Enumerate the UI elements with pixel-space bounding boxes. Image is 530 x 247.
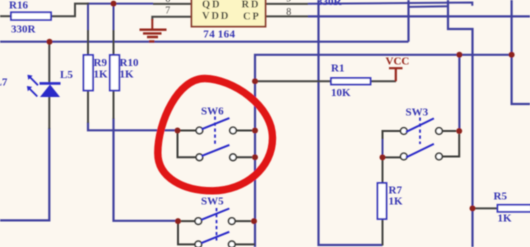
svg-text:74 164: 74 164 [203,29,235,41]
wire vertical x318.5 [319,0,383,245]
wire pin6 gray stub [153,3,192,5]
node SW5 left [175,218,181,224]
svg-text:CP: CP [243,11,261,22]
svg-text:VCC: VCC [386,56,410,68]
node pin6 / R10 [111,1,117,7]
svg-text:R5: R5 [494,191,508,203]
node R5 tap [470,205,476,211]
node SW3 left bottom [380,154,386,160]
wire SW3 left link [383,131,401,140]
svg-text:VDD: VDD [202,11,230,22]
svg-text:330R: 330R [11,24,37,36]
svg-text:330R: 330R [317,0,343,8]
wire R9 to SW6 [88,122,178,130]
node SW6 left [175,128,181,134]
wire pin8 gray stub [266,15,309,17]
node SW6 right top [252,128,258,134]
wire pin7 gray stub [152,17,191,20]
node R1 left [252,78,258,84]
wire LED to left edge [0,128,49,220]
svg-text:1K: 1K [498,212,513,224]
svg-text:9: 9 [286,0,291,5]
svg-text:SW5: SW5 [201,196,224,208]
svg-text:L5: L5 [60,69,73,81]
svg-text:QD: QD [202,0,221,11]
wire R5 pin [473,207,498,209]
wire vertical x408.5 top right [407,0,409,42]
resistor R16 [11,12,51,20]
svg-text:SW6: SW6 [201,106,224,118]
svg-text:RD: RD [242,0,261,10]
svg-text:10K: 10K [331,87,351,99]
wire pin9 gray stub [266,3,309,5]
wire vertical x448 and x472.5 [448,0,473,247]
LED L5 [40,85,60,98]
wire R10 pins [113,30,115,119]
resistor R9 [84,55,94,91]
svg-text:R9: R9 [94,57,108,69]
wire SW5 terminals [178,221,255,244]
svg-text:1K: 1K [389,196,404,208]
svg-text:1K: 1K [120,69,135,81]
wire CP pin8 net [308,15,530,17]
svg-text:1K: 1K [94,69,109,81]
wire SW6 terminals [178,131,253,158]
wire vertical x511.6 [512,0,530,104]
svg-text:L7: L7 [0,77,8,89]
wire bus B y54.8 [255,55,512,247]
wire R1 pins [255,80,396,82]
wire LED pins [48,42,50,129]
wire node R9 top [87,3,89,30]
svg-text:7: 7 [165,6,170,17]
node bus B x459 [456,52,462,58]
LED arrows [29,77,38,97]
resistor R5 [498,205,530,212]
resistor R7 [378,183,387,219]
resistor R10 [110,55,120,91]
svg-text:6: 6 [165,0,170,5]
wire busB to SW3 x459.4 [458,55,460,131]
svg-text:8: 8 [286,7,291,18]
wire RD pin9 net [308,3,472,6]
wire bus A horizontal y41.7 [0,41,409,43]
wire QD pin6 net blue part [88,3,153,5]
ground [151,19,153,29]
svg-text:R10: R10 [120,57,139,69]
wire SW3 terminals [383,131,460,157]
node bus B x511 [509,52,515,58]
wire branch y6.9 [409,5,449,8]
node bus A / LED [47,39,53,45]
node SW5 right [251,218,257,224]
wire R10 to SW5 [114,118,179,221]
svg-text:R16: R16 [9,0,28,12]
node SW6 right bottom [252,154,258,160]
wire R9 pins [87,30,89,123]
op IC U1 74164 body [192,0,266,27]
wire R16 to pin6 [51,4,89,17]
wire R7 pins [382,157,384,245]
resistor R1 [331,78,371,85]
annotation red circle [158,78,273,190]
node SW3 right top [456,128,462,134]
svg-text:R1: R1 [331,63,344,75]
svg-text:SW3: SW3 [406,107,429,119]
wire R16 left pin [0,15,11,17]
wire node R10 top [113,4,115,30]
